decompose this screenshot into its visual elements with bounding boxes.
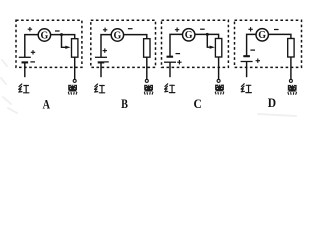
svg-text:G: G (41, 30, 49, 41)
svg-text:B: B (121, 97, 128, 111)
svg-text:G: G (258, 30, 266, 41)
svg-text:A: A (43, 97, 51, 111)
svg-text:G: G (114, 30, 122, 41)
svg-text:G: G (185, 30, 193, 41)
svg-text:D: D (268, 95, 277, 110)
svg-text:C: C (194, 96, 202, 111)
